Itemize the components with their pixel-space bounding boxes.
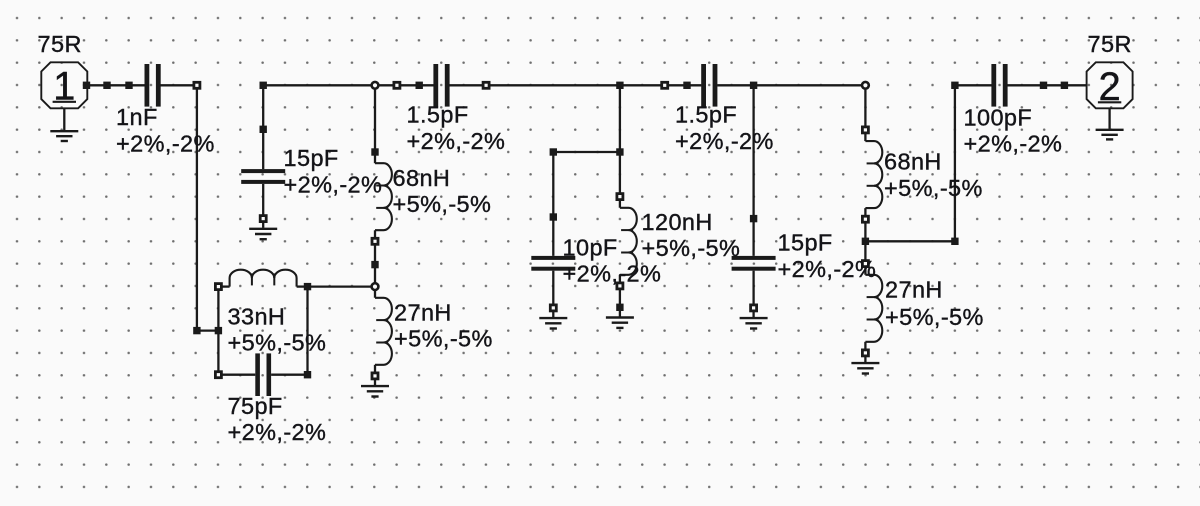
- svg-text:75pF: 75pF: [228, 393, 283, 419]
- svg-text:+5%,-5%: +5%,-5%: [885, 304, 984, 330]
- svg-text:33nH: 33nH: [228, 303, 286, 329]
- svg-text:68nH: 68nH: [884, 149, 942, 175]
- svg-text:+5%,-5%: +5%,-5%: [394, 326, 493, 352]
- svg-text:27nH: 27nH: [885, 277, 943, 303]
- svg-text:+2%,-2%: +2%,-2%: [284, 171, 383, 197]
- svg-text:1.5pF: 1.5pF: [407, 102, 469, 128]
- svg-text:+5%,-5%: +5%,-5%: [884, 175, 983, 201]
- svg-text:75R: 75R: [1088, 31, 1132, 57]
- svg-text:+2%,-2%: +2%,-2%: [563, 261, 662, 287]
- svg-text:100pF: 100pF: [964, 104, 1033, 130]
- svg-text:1nF: 1nF: [116, 104, 158, 130]
- svg-text:+5%,-5%: +5%,-5%: [228, 330, 327, 356]
- svg-text:2: 2: [1098, 65, 1120, 109]
- svg-text:+2%,-2%: +2%,-2%: [407, 128, 506, 154]
- svg-text:68nH: 68nH: [393, 165, 451, 191]
- svg-text:+5%,-5%: +5%,-5%: [642, 235, 741, 261]
- svg-text:+2%,-2%: +2%,-2%: [675, 128, 774, 154]
- svg-text:15pF: 15pF: [778, 230, 833, 256]
- svg-text:27nH: 27nH: [394, 299, 452, 325]
- svg-text:+2%,-2%: +2%,-2%: [964, 131, 1063, 157]
- svg-text:1.5pF: 1.5pF: [675, 102, 737, 128]
- svg-text:75R: 75R: [38, 31, 82, 57]
- svg-text:120nH: 120nH: [642, 209, 713, 235]
- svg-text:10pF: 10pF: [563, 235, 618, 261]
- svg-text:+2%,-2%: +2%,-2%: [228, 419, 327, 445]
- svg-text:15pF: 15pF: [284, 145, 339, 171]
- svg-text:+2%,-2%: +2%,-2%: [116, 130, 215, 156]
- svg-text:1: 1: [53, 65, 75, 109]
- svg-text:+2%,-2%: +2%,-2%: [778, 256, 877, 282]
- svg-text:+5%,-5%: +5%,-5%: [393, 191, 492, 217]
